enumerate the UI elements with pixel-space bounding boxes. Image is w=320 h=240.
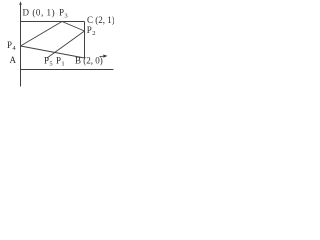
svg-text:A: A: [10, 55, 17, 65]
wire path P3-P2: [62, 22, 85, 32]
svg-text:P3: P3: [59, 8, 68, 20]
exit ray arrowhead: [100, 55, 105, 57]
svg-text:P1: P1: [56, 56, 65, 68]
wire exit ray: [21, 46, 85, 58]
svg-text:B (2, 0): B (2, 0): [75, 56, 103, 66]
x-axis: [21, 69, 114, 71]
svg-text:P4: P4: [7, 40, 16, 52]
wire path P4-P3: [21, 22, 63, 47]
rect right side CB: [84, 22, 86, 59]
y-axis arrowhead: [19, 1, 22, 5]
svg-text:C (2, 1): C (2, 1): [87, 15, 114, 25]
svg-text:P2: P2: [87, 25, 96, 37]
y-axis: [20, 3, 22, 87]
wire path P2-P5: [47, 31, 85, 58]
svg-text:P5: P5: [44, 56, 53, 68]
rect top side DC: [21, 21, 85, 23]
svg-text:D (0, 1): D (0, 1): [23, 8, 56, 18]
